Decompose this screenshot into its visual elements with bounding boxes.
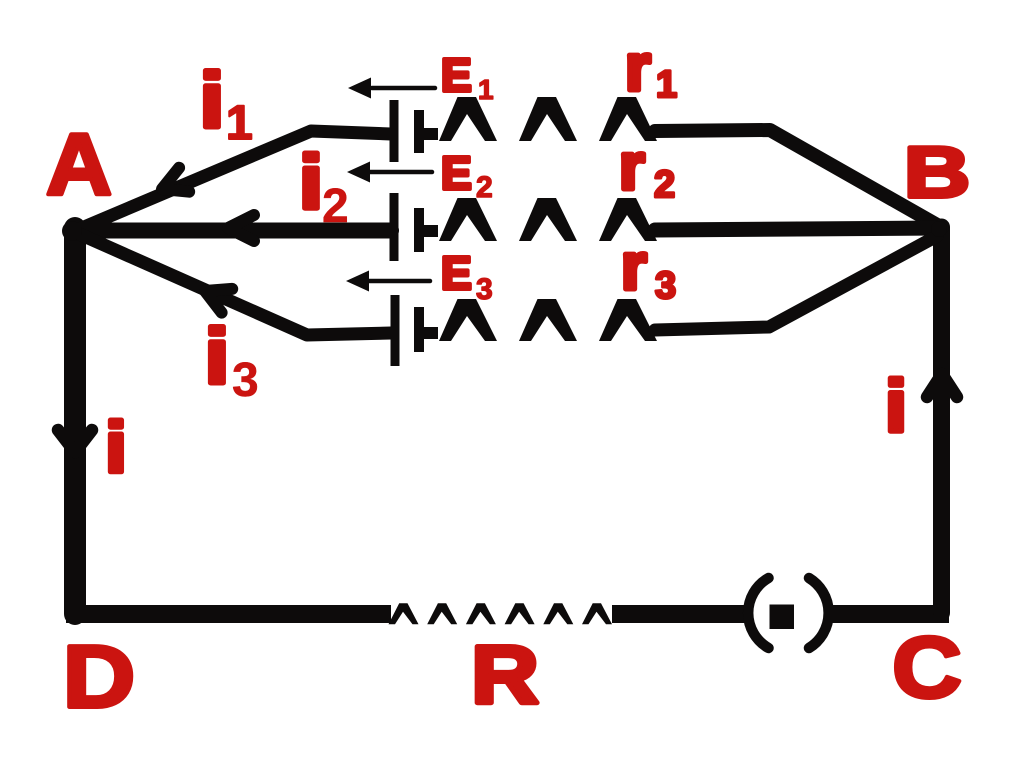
svg-text:2: 2	[476, 171, 493, 204]
svg-text:i: i	[299, 140, 323, 224]
wire C-B right vertical	[933, 227, 950, 613]
emf arrow E3	[368, 279, 430, 284]
wire branch1 A to battery E1	[77, 131, 391, 230]
battery E3 stub to r3	[421, 327, 438, 339]
svg-text:r: r	[621, 229, 647, 303]
arrow current i3 on branch3	[200, 279, 233, 313]
arrow current i upward on wire C-B	[927, 374, 957, 397]
battery E1 short plate	[414, 110, 424, 153]
wire r3 to B	[655, 236, 937, 330]
node A junction dot	[62, 221, 82, 241]
battery E2 short plate	[414, 208, 424, 252]
svg-text:1: 1	[478, 74, 494, 105]
svg-text:2: 2	[654, 164, 675, 206]
svg-text:i: i	[205, 312, 230, 399]
arrow current i1 on branch1	[157, 168, 189, 201]
svg-text:2: 2	[322, 180, 349, 233]
emf arrow E2	[369, 170, 432, 175]
emf arrow E1	[372, 86, 435, 91]
wire branch3 A to battery E3	[77, 233, 391, 335]
svg-text:r: r	[619, 129, 645, 203]
battery E3 short plate	[414, 307, 424, 352]
svg-text:B: B	[904, 132, 971, 213]
arrow current i downward on wire A-D	[58, 430, 92, 452]
svg-text:C: C	[892, 620, 962, 716]
svg-text:R: R	[471, 628, 538, 720]
wire r2 to B	[655, 228, 941, 230]
battery E3 long plate	[391, 295, 400, 366]
svg-text:i: i	[200, 56, 225, 143]
wire branch2 A to battery E2	[75, 223, 391, 239]
internal resistance r3 zigzag	[439, 299, 657, 341]
arrow current i2 on branch2	[228, 215, 254, 241]
wire R-key segment	[612, 605, 747, 623]
key K right parenthesis	[809, 578, 829, 648]
resistor R zigzag	[389, 603, 613, 624]
battery E2 long plate	[390, 193, 399, 261]
svg-text:A: A	[46, 115, 112, 213]
svg-text:r: r	[625, 30, 651, 104]
svg-text:D: D	[63, 628, 135, 726]
internal resistance r1 zigzag	[439, 97, 657, 141]
node B junction	[931, 221, 947, 237]
svg-text:E: E	[441, 247, 472, 299]
battery E2 stub to r2	[421, 225, 438, 237]
wire r1 to B	[655, 130, 939, 226]
internal resistance r2 zigzag	[439, 198, 657, 241]
wire A-D left vertical	[64, 228, 86, 614]
key K plug square	[770, 605, 795, 630]
svg-text:i: i	[105, 407, 127, 487]
wire key-C segment	[832, 605, 949, 623]
svg-text:1: 1	[656, 64, 677, 106]
svg-text:3: 3	[655, 265, 676, 307]
svg-text:3: 3	[232, 354, 259, 407]
svg-text:1: 1	[226, 97, 253, 150]
wire D-R bottom left segment	[66, 605, 391, 623]
svg-text:E: E	[441, 147, 472, 199]
battery E1 long plate	[390, 100, 399, 162]
svg-text:i: i	[885, 366, 907, 447]
svg-text:E: E	[441, 49, 472, 101]
key K left parenthesis	[748, 578, 768, 648]
svg-text:3: 3	[476, 273, 493, 306]
battery E1 stub to r1	[421, 128, 438, 140]
